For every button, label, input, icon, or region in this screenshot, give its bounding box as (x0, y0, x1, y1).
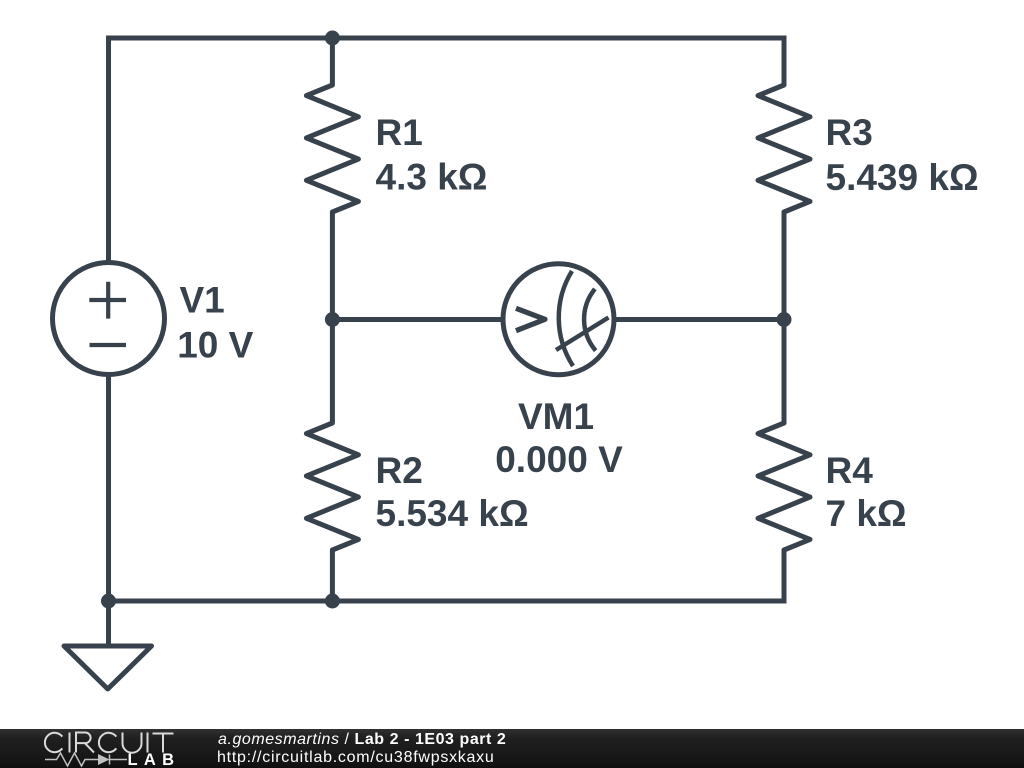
wire left upper (106, 36, 111, 264)
svg-text:0.000 V: 0.000 V (495, 439, 623, 480)
node bottom left (101, 594, 116, 609)
ground (64, 601, 152, 689)
CircuitLab logo (0, 727, 185, 768)
svg-text:R4: R4 (826, 450, 874, 491)
svg-text:VM1: VM1 (518, 396, 594, 437)
svg-text:10 V: 10 V (177, 325, 253, 366)
wire left lower (106, 374, 111, 604)
footer url (217, 749, 495, 767)
node middle right (777, 312, 792, 327)
node middle left (325, 312, 340, 327)
voltage source V1 (53, 263, 165, 375)
node top junction (325, 31, 340, 46)
svg-text:R3: R3 (826, 112, 873, 153)
footer title (218, 731, 506, 749)
wire middle right (614, 317, 787, 322)
svg-text:4.3 kΩ: 4.3 kΩ (376, 157, 488, 198)
wire top (106, 36, 787, 41)
svg-text:R1: R1 (376, 112, 423, 153)
logo LAB text (128, 752, 181, 768)
resistor R4 (758, 320, 810, 604)
svg-text:V1: V1 (180, 280, 225, 321)
wire bottom (106, 599, 787, 604)
node bottom junction (325, 594, 340, 609)
svg-text:5.534 kΩ: 5.534 kΩ (376, 493, 529, 534)
resistor R3 (758, 36, 810, 320)
wire middle left (332, 317, 503, 322)
voltmeter VM1 (503, 264, 614, 375)
svg-text:5.439 kΩ: 5.439 kΩ (826, 157, 979, 198)
svg-text:R2: R2 (376, 450, 423, 491)
svg-text:7 kΩ: 7 kΩ (826, 493, 907, 534)
resistor R1 (306, 36, 358, 320)
footer bar (0, 729, 1024, 768)
resistor R2 (306, 320, 358, 604)
